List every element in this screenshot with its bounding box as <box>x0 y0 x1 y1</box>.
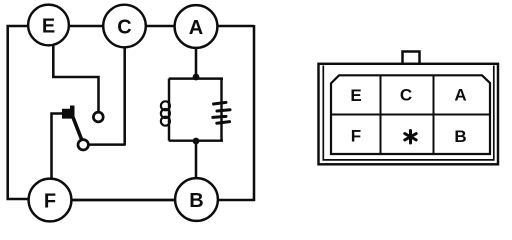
wire lower contact to C leg <box>89 143 125 145</box>
svg-text:F: F <box>351 127 361 146</box>
svg-text:F: F <box>44 191 56 213</box>
node top junction <box>193 74 200 81</box>
wire top bus E to C <box>69 25 103 28</box>
svg-text:B: B <box>189 190 203 212</box>
terminal F <box>29 179 72 222</box>
wire left return E to F <box>8 26 30 199</box>
connector grid divider rows <box>331 114 490 116</box>
inductor L2 right leg <box>220 79 222 141</box>
terminal A <box>175 5 218 48</box>
pin label asterisk <box>405 131 416 144</box>
svg-text:E: E <box>350 86 361 105</box>
terminal E <box>28 5 69 46</box>
inductor frame top bar <box>169 77 223 79</box>
wire top bus C to A <box>146 25 175 28</box>
switch contact lower <box>78 140 88 150</box>
svg-text:A: A <box>189 17 203 39</box>
wire right return corner to B <box>218 25 255 200</box>
wire top bus A to right corner <box>217 25 254 28</box>
wire A down to node <box>195 48 198 78</box>
connector grid divider E|C <box>380 75 382 154</box>
svg-text:A: A <box>454 86 466 105</box>
wire bottom F to B <box>71 199 176 202</box>
inductor frame bottom bar <box>169 139 223 141</box>
connector grid divider C|A <box>433 75 435 154</box>
svg-text:E: E <box>42 16 55 38</box>
connector tab <box>403 52 420 65</box>
wire C down <box>123 48 126 146</box>
wire node down to B <box>195 141 198 178</box>
svg-text:C: C <box>400 86 412 105</box>
connector shell inner line <box>323 66 494 160</box>
inductor L2 right coil bars <box>213 102 230 123</box>
switch pivot <box>62 106 75 119</box>
node bottom junction <box>193 138 200 145</box>
connector cell box chamfered <box>331 75 490 154</box>
switch contact upper <box>93 112 103 122</box>
svg-text:C: C <box>117 17 131 39</box>
terminal C <box>103 5 146 48</box>
wire E down to upper contact <box>53 45 98 112</box>
inductor L1 left coil loops <box>161 101 170 125</box>
inductor L1 left leg <box>168 79 170 141</box>
wire F up to switch pivot <box>52 114 64 179</box>
switch arm <box>73 116 82 140</box>
terminal B <box>175 178 218 221</box>
svg-text:B: B <box>454 127 466 146</box>
connector shell outer line <box>319 64 499 165</box>
